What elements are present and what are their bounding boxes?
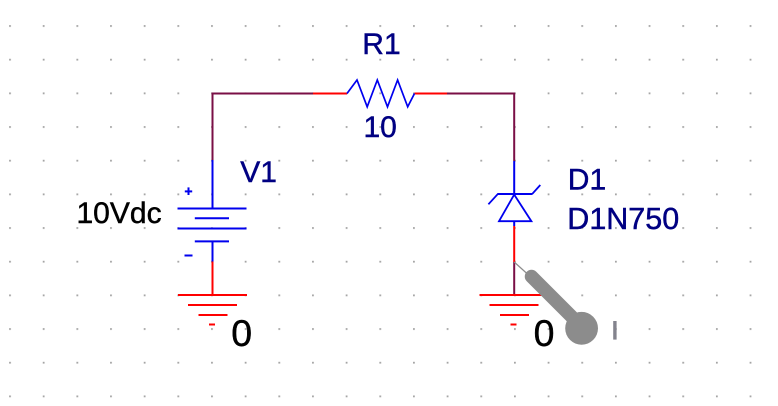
wire	[447, 94, 514, 162]
svg-text:10: 10	[364, 111, 397, 144]
svg-text:0: 0	[534, 312, 555, 354]
svg-text:D1N750: D1N750	[567, 202, 679, 236]
zener diode D1	[488, 161, 540, 262]
ground 0 (right)	[480, 295, 549, 325]
svg-text:0: 0	[231, 312, 252, 354]
svg-text:D1: D1	[568, 163, 606, 196]
probe label I	[613, 321, 616, 340]
wire	[213, 94, 314, 161]
svg-text:R1: R1	[362, 28, 400, 61]
ground 0 (left)	[178, 262, 247, 325]
wire	[513, 262, 515, 295]
svg-text:V1: V1	[240, 156, 277, 189]
current probe	[514, 262, 598, 345]
voltage source V1	[178, 160, 247, 262]
svg-text:10Vdc: 10Vdc	[77, 197, 162, 230]
resistor R1	[313, 80, 447, 107]
